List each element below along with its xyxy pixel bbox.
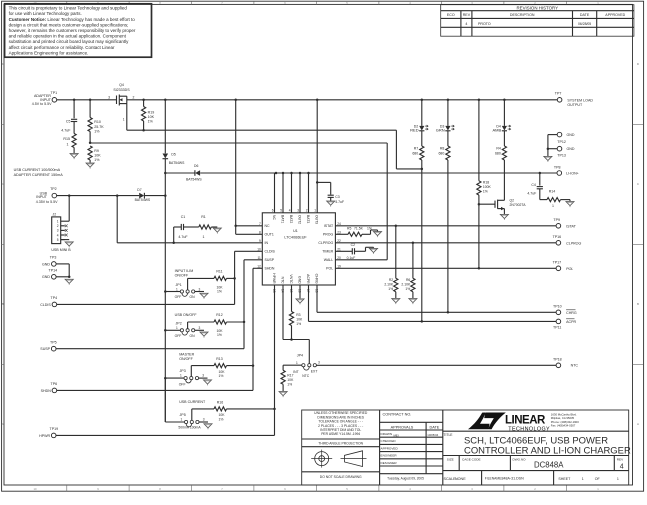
svg-text:REV: REV bbox=[617, 457, 624, 461]
ground below R15 bbox=[70, 154, 78, 158]
test point TP9 ISTAT bbox=[556, 224, 561, 229]
wire ACPR gate net to LED jog bbox=[144, 129, 397, 131]
junction on VOUT rail bbox=[89, 99, 92, 102]
svg-text:ECO: ECO bbox=[447, 13, 455, 17]
svg-text:4.7uF: 4.7uF bbox=[178, 235, 188, 239]
svg-text:1%: 1% bbox=[94, 129, 100, 133]
junction on battery net bbox=[307, 172, 310, 175]
svg-text:C5: C5 bbox=[66, 119, 71, 123]
junction on VOUT rail bbox=[142, 99, 145, 102]
svg-text:TECHNOLOGY: TECHNOLOGY bbox=[508, 426, 550, 432]
svg-text:TP2: TP2 bbox=[50, 187, 57, 191]
svg-text:PROTO: PROTO bbox=[478, 22, 491, 26]
svg-text:SIZE: SIZE bbox=[447, 457, 454, 461]
ground below R2 bbox=[392, 299, 400, 303]
svg-text:Q4: Q4 bbox=[119, 83, 124, 87]
svg-text:10K: 10K bbox=[287, 378, 294, 382]
svg-text:2: 2 bbox=[133, 96, 135, 100]
svg-text:10K: 10K bbox=[94, 154, 101, 158]
svg-text:1%: 1% bbox=[94, 158, 100, 162]
ground JP1 bbox=[200, 293, 208, 297]
svg-text:VNTC: VNTC bbox=[289, 274, 293, 284]
svg-text:ENGINEER: ENGINEER bbox=[381, 454, 398, 458]
capacitor C5 4.7uF bbox=[73, 100, 75, 119]
svg-text:TP19: TP19 bbox=[50, 427, 59, 431]
svg-text:ISTAT: ISTAT bbox=[566, 224, 576, 228]
svg-text:LINEAR: LINEAR bbox=[505, 415, 546, 427]
wire pin8 OUT1 bbox=[236, 233, 263, 235]
wire OUT3 column from rail bbox=[316, 100, 318, 213]
svg-text:WALL: WALL bbox=[324, 258, 333, 262]
resistor R18 100K 1% bbox=[478, 100, 480, 181]
wire JP4 pin3 to TP18 bbox=[316, 364, 556, 366]
svg-text:LI-ION+: LI-ION+ bbox=[566, 172, 579, 176]
svg-text:PER ASME Y14.5M -1994: PER ASME Y14.5M -1994 bbox=[321, 432, 360, 436]
svg-text:however, it remains the custom: however, it remains the customers respon… bbox=[9, 28, 136, 33]
svg-text:TP4: TP4 bbox=[51, 296, 58, 300]
svg-text:71.5K: 71.5K bbox=[354, 227, 364, 231]
wire JP1 pin3 to ground bbox=[195, 291, 204, 293]
junction R13 on SHDN column bbox=[252, 364, 255, 367]
svg-text:JP5: JP5 bbox=[180, 413, 186, 417]
svg-text:2: 2 bbox=[57, 224, 59, 228]
wire JP4 pin1 to R17 bbox=[283, 364, 302, 366]
wire bus to JP3 pin1 bbox=[165, 377, 184, 379]
svg-text:Fax: (408)434-0507: Fax: (408)434-0507 bbox=[551, 423, 576, 427]
svg-text:OUT3: OUT3 bbox=[315, 215, 319, 224]
resistor R2 2.10K 1% bbox=[395, 226, 397, 278]
junction on VOUT rail bbox=[503, 99, 506, 102]
svg-text:ISTAT: ISTAT bbox=[324, 224, 334, 228]
svg-text:U1: U1 bbox=[293, 229, 298, 233]
test point TP10 CHRG bbox=[556, 310, 561, 315]
svg-text:TP16: TP16 bbox=[553, 235, 562, 239]
svg-text:4: 4 bbox=[620, 463, 624, 470]
svg-text:R2: R2 bbox=[389, 278, 393, 282]
svg-text:TP7: TP7 bbox=[555, 91, 562, 95]
svg-text:THIRD ANGLE PROJECTION: THIRD ANGLE PROJECTION bbox=[318, 441, 363, 445]
ground TP12 TP13 bbox=[544, 156, 552, 160]
svg-text:OFF: OFF bbox=[175, 334, 182, 338]
svg-text:EXT: EXT bbox=[311, 370, 318, 374]
svg-text:R3: R3 bbox=[296, 313, 300, 317]
test point TP11 ACPR bbox=[556, 319, 561, 324]
svg-text:SHEET: SHEET bbox=[558, 477, 571, 481]
diode D6 BAT54WS bbox=[165, 172, 195, 174]
svg-text:USB MINI B: USB MINI B bbox=[51, 248, 71, 252]
junction R16 on HPWR column bbox=[273, 408, 276, 411]
junction on VOUT rail bbox=[478, 99, 481, 102]
svg-text:APPROVED: APPROVED bbox=[605, 13, 625, 17]
svg-text:1: 1 bbox=[203, 235, 205, 239]
junction TP13 gnd bbox=[547, 147, 550, 150]
svg-text:C3: C3 bbox=[335, 195, 340, 199]
junction D7 at bus bbox=[164, 194, 167, 197]
svg-text:3: 3 bbox=[108, 96, 110, 100]
junction C1 tap on IN net bbox=[172, 242, 175, 245]
svg-text:3: 3 bbox=[199, 326, 201, 330]
svg-text:MEI: MEI bbox=[394, 433, 399, 437]
svg-text:1%: 1% bbox=[296, 322, 301, 326]
svg-text:USB ON/OFF: USB ON/OFF bbox=[175, 313, 198, 317]
svg-text:INPUT: INPUT bbox=[36, 195, 48, 199]
svg-text:GND: GND bbox=[567, 147, 575, 151]
svg-text:A: A bbox=[637, 422, 639, 426]
test point TP16 CLPROG bbox=[556, 241, 561, 246]
svg-text:NTC: NTC bbox=[571, 364, 579, 368]
junction on VOUT rail bbox=[447, 99, 450, 102]
junction on battery net bbox=[275, 172, 278, 175]
svg-text:USB CURRENT: USB CURRENT bbox=[179, 400, 206, 404]
svg-text:DC848A: DC848A bbox=[534, 461, 564, 470]
junction USB connector drop bbox=[68, 194, 71, 197]
wire ISTAT pin24 to TP9 bbox=[335, 225, 556, 227]
svg-text:substitution and printed circu: substitution and printed circuit board l… bbox=[9, 39, 130, 44]
resistor R17 10K 1% bbox=[281, 370, 285, 384]
svg-text:1: 1 bbox=[582, 477, 584, 481]
svg-text:10/05/04: 10/05/04 bbox=[427, 433, 438, 437]
svg-text:TP9: TP9 bbox=[553, 218, 560, 222]
wire pin7 NC bbox=[236, 225, 263, 227]
svg-text:DATE: DATE bbox=[580, 13, 590, 17]
wire JP5 pin3 to ground bbox=[199, 421, 208, 423]
svg-text:A: A bbox=[2, 422, 4, 426]
svg-text:SYSTEM LOAD: SYSTEM LOAD bbox=[567, 98, 593, 102]
svg-text:06/28/05: 06/28/05 bbox=[578, 22, 591, 26]
svg-text:5: 5 bbox=[57, 238, 59, 242]
svg-text:6: 6 bbox=[272, 209, 274, 213]
svg-text:GND: GND bbox=[567, 133, 575, 137]
svg-text:1: 1 bbox=[296, 361, 298, 365]
ground after R5 bbox=[377, 230, 379, 232]
svg-text:4: 4 bbox=[465, 22, 467, 26]
junction WALL divider tap bbox=[89, 142, 92, 145]
junction R12 on SUSP column bbox=[243, 321, 246, 324]
svg-text:1: 1 bbox=[314, 209, 316, 213]
svg-text:2: 2 bbox=[306, 209, 308, 213]
svg-text:CLDIS: CLDIS bbox=[40, 303, 51, 307]
svg-text:POL: POL bbox=[566, 267, 573, 271]
svg-text:C2: C2 bbox=[351, 243, 355, 247]
svg-text:TP17: TP17 bbox=[553, 260, 562, 264]
svg-text:1%: 1% bbox=[219, 374, 224, 378]
resistor R14 1 bbox=[539, 189, 541, 200]
svg-text:TP3: TP3 bbox=[50, 256, 57, 260]
svg-text:3: 3 bbox=[297, 209, 299, 213]
svg-text:OFF: OFF bbox=[175, 295, 182, 299]
svg-text:GRN: GRN bbox=[436, 128, 445, 133]
junction on battery net bbox=[290, 172, 293, 175]
wire TP12 TP13 ground bbox=[547, 135, 549, 157]
svg-text:D6: D6 bbox=[194, 164, 198, 168]
svg-text:BAT54WS: BAT54WS bbox=[186, 177, 202, 181]
ground at pin16 GND bbox=[299, 285, 301, 298]
svg-text:ON/OFF: ON/OFF bbox=[179, 357, 193, 361]
ground below R17 bbox=[279, 392, 287, 396]
svg-text:R18: R18 bbox=[483, 181, 489, 185]
title block spec section bbox=[379, 410, 381, 485]
wire Q4 gate bbox=[126, 104, 128, 131]
junction on VOUT rail bbox=[73, 99, 76, 102]
svg-text:DESIGNER: DESIGNER bbox=[381, 461, 398, 465]
wire VOUT rail Q4 to TP7 bbox=[130, 99, 558, 101]
svg-text:IN: IN bbox=[265, 241, 269, 245]
ground at J2 bbox=[65, 242, 73, 246]
resistor R13 10K 1% bbox=[190, 366, 192, 377]
svg-text:5: 5 bbox=[280, 209, 282, 213]
svg-text:TP1: TP1 bbox=[51, 91, 58, 95]
svg-text:CLDIS: CLDIS bbox=[265, 250, 276, 254]
junction on VOUT rail bbox=[164, 99, 167, 102]
svg-text:CONTROLLER AND LI-ION CHARGER: CONTROLLER AND LI-ION CHARGER bbox=[464, 445, 631, 456]
test point TP1 ADAPTER INPUT bbox=[52, 98, 57, 103]
svg-text:R17: R17 bbox=[287, 374, 293, 378]
resistor R16 10K 1% bbox=[191, 409, 193, 421]
svg-text:JP2: JP2 bbox=[176, 322, 182, 326]
svg-text:BAT3: BAT3 bbox=[306, 215, 310, 223]
svg-text:NC: NC bbox=[265, 224, 271, 228]
svg-text:BAT2: BAT2 bbox=[289, 215, 293, 223]
test point TP14 GND bbox=[52, 275, 57, 280]
junction pin7 column bbox=[234, 225, 237, 228]
LED D3 GRN bbox=[447, 100, 449, 126]
svg-text:ON: ON bbox=[190, 295, 196, 299]
svg-text:affect circuit performance or: affect circuit performance or reliabilit… bbox=[9, 45, 115, 50]
resistor R3 10K 1% on VNTC bbox=[291, 285, 293, 312]
svg-text:R14: R14 bbox=[549, 189, 555, 193]
test point TP19 HPWR bbox=[51, 433, 56, 438]
svg-text:4: 4 bbox=[57, 233, 59, 237]
ground below R9 bbox=[86, 163, 94, 167]
svg-text:TP8: TP8 bbox=[554, 165, 561, 169]
wire BAT pins to battery net bbox=[274, 173, 276, 213]
wire CHRG pin18 to TP10 bbox=[316, 285, 318, 312]
Linear Technology logo bbox=[443, 430, 629, 432]
test point TP3 GND bbox=[52, 262, 57, 267]
test point TP12 GND bbox=[557, 132, 562, 137]
svg-text:DESCRIPTION: DESCRIPTION bbox=[510, 13, 535, 17]
capacitor C3 4.7uF bbox=[317, 181, 331, 183]
svg-text:CAGE CODE: CAGE CODE bbox=[462, 457, 481, 461]
svg-text:LTC4066EUF: LTC4066EUF bbox=[284, 235, 307, 239]
wire AMB column to Q2 drain bbox=[503, 160, 505, 200]
svg-text:1%: 1% bbox=[388, 287, 393, 291]
test point TP5 SUSP bbox=[51, 346, 56, 351]
svg-text:for use with Linear Technology: for use with Linear Technology parts. bbox=[9, 11, 82, 16]
svg-text:DO NOT SCALE DRAWING: DO NOT SCALE DRAWING bbox=[320, 475, 362, 479]
junction on VOUT rail bbox=[234, 99, 237, 102]
svg-text:4.7uF: 4.7uF bbox=[527, 191, 536, 195]
wire J2 pin5 to ground bbox=[61, 239, 69, 241]
wire pin13 HPWR column bbox=[274, 285, 276, 435]
svg-text:DRAWN: DRAWN bbox=[381, 432, 393, 436]
svg-text:NONE: NONE bbox=[455, 477, 466, 481]
ground after R1 bbox=[213, 228, 221, 232]
svg-text:2.10K: 2.10K bbox=[401, 283, 411, 287]
zone tick marks left/right bbox=[2, 124, 4, 126]
svg-text:TP11: TP11 bbox=[553, 326, 561, 330]
svg-text:Applications Engineering for a: Applications Engineering for assistance. bbox=[9, 50, 89, 55]
svg-text:BAT1: BAT1 bbox=[281, 215, 285, 223]
ground below R6 bbox=[409, 299, 417, 303]
svg-text:BAT54WS: BAT54WS bbox=[169, 161, 185, 165]
ground below Q2 bbox=[500, 214, 508, 218]
wire adapter input to Q4 bbox=[57, 99, 114, 101]
wire diode OR bus vertical bbox=[164, 100, 166, 154]
svg-text:4.5V to 5.5V: 4.5V to 5.5V bbox=[32, 102, 52, 106]
diode D7 BAT54WS bbox=[139, 193, 144, 199]
svg-text:1: 1 bbox=[123, 118, 125, 122]
wire POL pin19 to TP17 bbox=[335, 267, 556, 269]
svg-text:D7: D7 bbox=[137, 188, 141, 192]
svg-text:OUT2: OUT2 bbox=[298, 215, 302, 224]
svg-text:CLPROG: CLPROG bbox=[318, 241, 333, 245]
svg-text:1%: 1% bbox=[217, 289, 222, 293]
svg-text:ON/OFF: ON/OFF bbox=[175, 274, 189, 278]
ground JP3 bbox=[203, 380, 211, 384]
svg-text:TITLE: TITLE bbox=[444, 433, 454, 437]
wire bus to JP1 pin1 bbox=[165, 291, 180, 293]
resistor R15 1 bbox=[73, 122, 75, 134]
svg-text:680: 680 bbox=[495, 151, 501, 155]
svg-text:TP5: TP5 bbox=[50, 340, 57, 344]
svg-text:TIMER: TIMER bbox=[322, 250, 333, 254]
junction GRN LED on CHRG bbox=[447, 311, 450, 314]
svg-text:4.7uF: 4.7uF bbox=[335, 200, 344, 204]
svg-text:CHRG: CHRG bbox=[315, 274, 319, 284]
svg-text:TP6: TP6 bbox=[51, 382, 58, 386]
svg-text:B: B bbox=[637, 302, 639, 306]
svg-text:100K: 100K bbox=[483, 185, 492, 189]
svg-text:10K: 10K bbox=[148, 115, 155, 119]
LED D2 RED bbox=[421, 100, 423, 126]
svg-text:1%: 1% bbox=[217, 333, 222, 337]
ground at TP14 bbox=[65, 279, 73, 283]
test point TP4 CLDIS bbox=[52, 302, 57, 307]
svg-text:1: 1 bbox=[180, 374, 182, 378]
svg-text:ON: ON bbox=[190, 334, 196, 338]
svg-text:R5: R5 bbox=[347, 227, 351, 231]
svg-text:2N7002TA: 2N7002TA bbox=[510, 203, 527, 207]
test point TP13 GND bbox=[557, 146, 562, 151]
svg-text:10K: 10K bbox=[296, 317, 303, 321]
wire RED column to ACPR bbox=[421, 160, 423, 321]
svg-text:DWG.NO: DWG.NO bbox=[513, 457, 527, 461]
svg-text:10: 10 bbox=[34, 487, 37, 491]
resistor R4 680 bbox=[503, 131, 505, 146]
zone tick marks top/bottom bbox=[66, 1, 68, 4]
svg-text:1: 1 bbox=[57, 220, 59, 224]
svg-text:OUTPUT: OUTPUT bbox=[567, 103, 583, 107]
svg-text:R11: R11 bbox=[216, 270, 222, 274]
svg-text:BAT54WS: BAT54WS bbox=[135, 198, 151, 202]
wire OUT1 column from rail bbox=[235, 100, 237, 235]
proprietary notice box bbox=[5, 4, 152, 57]
svg-text:CHECKED: CHECKED bbox=[381, 439, 397, 443]
svg-text:This circuit is proprietary to: This circuit is proprietary to Linear Te… bbox=[9, 6, 128, 11]
junction R11 on CLDIS column bbox=[233, 277, 236, 280]
svg-text:APPROVALS: APPROVALS bbox=[391, 425, 414, 429]
svg-text:1%: 1% bbox=[287, 383, 292, 387]
svg-text:3: 3 bbox=[318, 360, 320, 364]
wire JP2 pin3 to ground bbox=[195, 329, 204, 331]
junction on VOUT rail bbox=[316, 99, 319, 102]
svg-text:TP10: TP10 bbox=[553, 304, 562, 308]
resistor R6 2.10K 1% bbox=[412, 243, 414, 278]
svg-text:R10: R10 bbox=[94, 120, 101, 124]
ground below C3 bbox=[330, 197, 332, 201]
svg-text:1: 1 bbox=[552, 204, 554, 208]
svg-text:Customer Notice: Linear Techno: Customer Notice: Linear Technology has m… bbox=[9, 17, 136, 22]
svg-text:and reliable operation in the: and reliable operation in the actual app… bbox=[9, 34, 127, 39]
wire JP3 pin3 to ground bbox=[199, 377, 208, 379]
svg-text:INT: INT bbox=[293, 370, 298, 374]
svg-text:Tuesday, August 09, 2005: Tuesday, August 09, 2005 bbox=[387, 476, 424, 480]
wire pin11 SUSP to column bbox=[244, 259, 262, 261]
svg-text:500mA 100mA: 500mA 100mA bbox=[178, 425, 201, 429]
svg-text:J2: J2 bbox=[53, 212, 57, 216]
junction R2 tap on ISTAT bbox=[395, 225, 398, 228]
junction bus at battery node bbox=[164, 172, 167, 175]
svg-text:R12: R12 bbox=[216, 313, 222, 317]
svg-text:SUSP: SUSP bbox=[40, 347, 50, 351]
svg-text:INPUT ILIM: INPUT ILIM bbox=[175, 269, 194, 273]
svg-text:TP12: TP12 bbox=[557, 140, 566, 144]
revision history table bbox=[441, 5, 634, 37]
svg-text:848A-31.DSN: 848A-31.DSN bbox=[502, 477, 525, 481]
svg-text:R4: R4 bbox=[496, 147, 501, 151]
junction R6 tap on CLPROG bbox=[412, 242, 415, 245]
junction TP14 ground bbox=[68, 276, 71, 279]
junction bus JP1 bbox=[164, 290, 167, 293]
svg-text:OF: OF bbox=[595, 477, 601, 481]
resistor R1 1 bbox=[184, 226, 199, 228]
test point TP6 SHDN bbox=[52, 388, 57, 393]
transistor Q2 2N7002TA bbox=[479, 203, 495, 205]
wire Q2 source to ground bbox=[503, 209, 505, 215]
svg-text:OUT1: OUT1 bbox=[265, 233, 274, 237]
wire bus to JP2 pin1 bbox=[165, 329, 180, 331]
size cage dwg row bbox=[458, 456, 460, 471]
svg-text:GND: GND bbox=[42, 275, 50, 279]
resistor R7 680 bbox=[421, 131, 423, 146]
resistor R12 10K 1% bbox=[187, 322, 189, 329]
svg-text:CONTRACT NO.: CONTRACT NO. bbox=[383, 412, 412, 416]
resistor R10 25.7K 1% bbox=[89, 100, 91, 118]
svg-text:R16: R16 bbox=[217, 401, 223, 405]
svg-text:JP4: JP4 bbox=[297, 354, 303, 358]
resistor R5 71.5K 1% on PROG bbox=[335, 233, 348, 235]
junction IN jog drop bbox=[116, 194, 119, 197]
svg-text:4.35V to 5.5V: 4.35V to 5.5V bbox=[36, 200, 58, 204]
svg-text:C1: C1 bbox=[181, 215, 186, 219]
junction R18 on POL bbox=[478, 267, 481, 270]
ground JP2 bbox=[200, 332, 208, 336]
junction Q2 gate tap bbox=[478, 203, 481, 206]
svg-text:R19: R19 bbox=[148, 111, 155, 115]
svg-text:FILENAME:: FILENAME: bbox=[485, 477, 502, 481]
svg-text:R13: R13 bbox=[216, 357, 222, 361]
svg-text:3: 3 bbox=[202, 374, 204, 378]
svg-text:R7: R7 bbox=[414, 147, 419, 151]
junction RED LED on ACPR bbox=[421, 320, 424, 323]
svg-text:NC: NC bbox=[272, 215, 276, 220]
svg-text:1%: 1% bbox=[483, 190, 488, 194]
svg-text:NTC: NTC bbox=[281, 277, 285, 285]
connector J2 USB MINI B bbox=[52, 217, 61, 244]
svg-text:1: 1 bbox=[181, 418, 183, 422]
svg-text:MASTER: MASTER bbox=[179, 352, 194, 356]
